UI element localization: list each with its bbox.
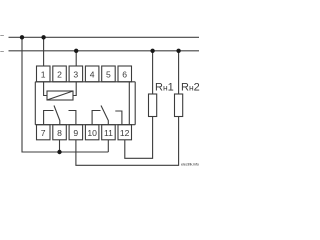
node: junction rail2 / Rn2 wire (176, 49, 180, 53)
wire: left drop from rail1 to bottom common (22, 37, 108, 152)
contact group II: stationary contact of terminal 12 (115, 111, 122, 125)
wire: terminal 8 to bottom common (59, 140, 61, 152)
wire: terminal 9 down and right to resistor Rn2 bottom (76, 117, 179, 166)
wire: rail2 to resistor Rn2 (178, 51, 180, 94)
node: junction rail1 / left drop (20, 35, 24, 39)
wire: terminal 12 down and right to resistor Rn1 bottom (125, 117, 153, 159)
node: junction rail2 / Rn1 wire (150, 49, 154, 53)
relay coil K1: lead to terminal 3 (73, 82, 76, 96)
node: junction rail2 / terminal3 wire (74, 49, 78, 53)
wire: internal link terminal 6 to terminal 12 (128, 82, 130, 125)
contact group I: stationary contact of terminal 9 (69, 111, 76, 125)
svg-text:1: 1 (41, 70, 46, 80)
terminal box 7 (37, 125, 51, 140)
wire: rail2 to resistor Rn1 (152, 51, 154, 94)
relay body outline (35, 82, 135, 125)
terminal box 11 (102, 125, 116, 140)
relay coil K1: diagonal stroke (47, 91, 73, 100)
svg-text:3: 3 (73, 70, 78, 80)
relay coil K1: lead from terminal 1 (44, 82, 47, 96)
wire: supply rail 2 (9, 50, 200, 52)
wire: rail1 to terminal 1 (43, 37, 45, 66)
svg-text:6: 6 (122, 70, 127, 80)
svg-text:7: 7 (41, 128, 46, 138)
svg-text:Rн1: Rн1 (155, 82, 174, 94)
terminal box 1 (37, 66, 51, 82)
node: junction rail1 / terminal1 wire (41, 35, 45, 39)
svg-text:electrik.info: electrik.info (181, 162, 200, 167)
contact group II: moving lever of terminal 11 (101, 106, 108, 125)
svg-text:~: ~ (0, 49, 4, 56)
svg-text:2: 2 (57, 70, 62, 80)
resistor Rn2 body (175, 94, 183, 117)
svg-text:5: 5 (106, 70, 111, 80)
svg-text:12: 12 (120, 128, 130, 138)
svg-text:8: 8 (57, 128, 62, 138)
svg-text:4: 4 (90, 70, 95, 80)
svg-text:11: 11 (104, 128, 113, 138)
relay coil K1: body rectangle (47, 91, 73, 100)
node: junction terminal8 wire / bottom common (57, 150, 61, 154)
terminal box 8 (53, 125, 67, 140)
terminal box 3 (69, 66, 83, 82)
terminal box 6 (118, 66, 132, 82)
terminal box 4 (85, 66, 99, 82)
svg-text:10: 10 (87, 128, 97, 138)
terminal box 12 (118, 125, 132, 140)
contact group II: stationary contact from terminal 10 (92, 111, 100, 125)
resistor Rn1 body (149, 94, 157, 117)
svg-text:Rн2: Rн2 (181, 82, 200, 94)
svg-text:~: ~ (0, 33, 4, 40)
terminal box 9 (69, 125, 83, 140)
terminal box 2 (53, 66, 67, 82)
terminal box 5 (102, 66, 116, 82)
svg-text:9: 9 (73, 128, 78, 138)
terminal box 10 (85, 125, 99, 140)
contact group I: moving lever of terminal 8 (54, 106, 60, 125)
wire: rail2 to terminal 3 (75, 51, 77, 66)
wire: supply rail 1 (9, 36, 200, 38)
contact group I: stationary contact from terminal 7 (44, 111, 54, 125)
wire: terminal 11 to bottom common (107, 140, 109, 152)
